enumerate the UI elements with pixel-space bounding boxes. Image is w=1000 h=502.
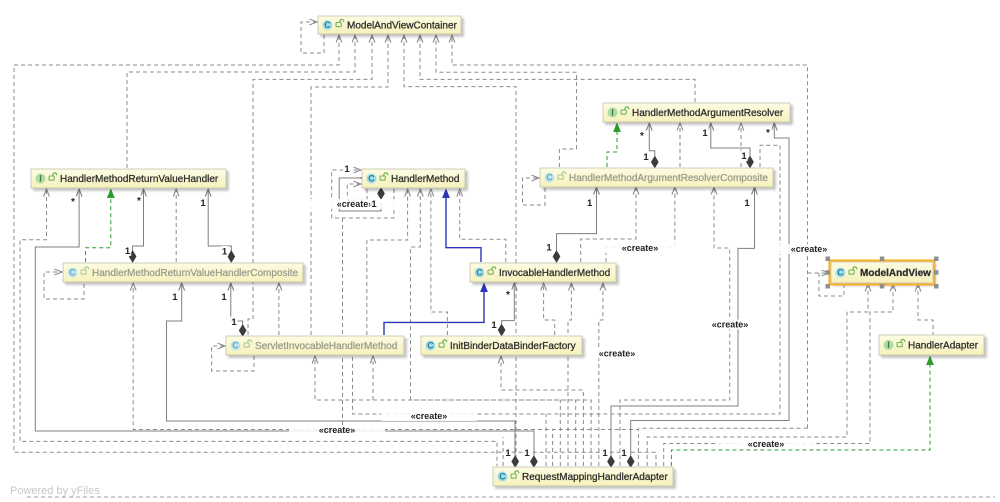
label multiplicity 1 on RMHA [523,448,531,459]
svg-text:*: * [506,290,510,301]
svg-text:«create»: «create» [337,199,374,209]
wire dependency IHM to ARC create [606,188,675,262]
svg-text:«create»: «create» [622,243,659,253]
svg-text:1: 1 [643,152,649,163]
class HandlerMethod [364,171,468,191]
svg-text:1: 1 [744,198,750,209]
interface HandlerMethodReturnValueHandler [33,171,229,191]
wire dependency ARC self-loop [523,178,546,205]
svg-text:C: C [324,20,331,30]
svg-text:C: C [368,174,375,184]
label multiplicity * [638,130,646,141]
svg-text:C: C [232,341,239,351]
wire association RMHA diamond to RVHC left [167,284,516,456]
wire dependency IHM to HandlerMethod [460,190,506,262]
svg-text:1: 1 [125,246,131,257]
wire association HandlerMethod create self-loop solid [339,178,381,211]
class ModelAndViewContainer [320,18,464,37]
wire dependency RMHA to ModelAndView a [647,285,868,466]
wire dependency RMHA to RVH dashed far left [20,190,497,466]
svg-text:*: * [766,128,770,139]
wire dependency RMHA to IHM b create [599,284,603,466]
label multiplicity * [135,195,143,206]
label multiplicity 1 InitBinder diamond [490,320,498,331]
wire association ARC diamond to AR 2 [711,124,750,156]
svg-text:HandlerMethod: HandlerMethod [391,174,459,185]
svg-text:HandlerMethodReturnValueHandle: HandlerMethodReturnValueHandler [60,174,219,185]
label multiplicity 1 [171,292,179,303]
label multiplicity * IHM-InitBinder [504,289,512,300]
svg-text:ModelAndViewContainer: ModelAndViewContainer [347,21,458,32]
svg-text:C: C [837,268,844,278]
svg-text:Powered by yFiles: Powered by yFiles [10,485,100,497]
wire dependency HandlerMethodReturnValueHandler to MAVC [127,36,355,168]
label multiplicity 1 [124,246,132,257]
wire association RVHC diamond to RVH 2 [208,190,231,251]
svg-text:HandlerAdapter: HandlerAdapter [908,341,979,352]
svg-text:1: 1 [231,317,237,328]
wire dependency ArgResolverComposite to MAVC [436,36,577,167]
svg-text:HandlerMethodReturnValueHandle: HandlerMethodReturnValueHandlerComposite [92,268,298,279]
svg-text:C: C [499,472,506,482]
svg-text:HandlerMethodArgumentResolver: HandlerMethodArgumentResolver [632,108,784,119]
svg-text:C: C [427,341,434,351]
wire dependency RMHA to ModelAndView b create row [664,285,893,466]
svg-text:«create»: «create» [599,349,636,359]
wire dependency ModelAndView self-loop [819,273,844,296]
label create mid right [682,320,778,330]
wire dependency RVHC self-loop [44,272,84,299]
wire dependency RMHA create to RVHC [133,284,638,466]
svg-text:RequestMappingHandlerAdapter: RequestMappingHandlerAdapter [522,472,668,483]
svg-text:1: 1 [524,448,530,459]
wire generalization IHM extends HandlerMethod (blue) [446,198,481,262]
svg-text:1: 1 [505,448,511,459]
label multiplicity 1 [220,292,228,303]
svg-text:1: 1 [702,128,708,139]
svg-text:1: 1 [491,320,497,331]
label multiplicity 1 [701,128,709,139]
wire dependency to SIHM bottom right arrow [372,357,374,400]
wire dependency SIHM to RVHC [278,284,280,335]
label multiplicity 1 on RMHA [601,448,609,459]
wire association RMHA diamond via ARC bottom [611,188,755,456]
svg-text:I: I [39,174,42,184]
svg-text:«create»: «create» [411,411,448,421]
label multiplicity 1 [221,246,229,257]
class InitBinderDataBinderFactory [423,338,585,358]
wire dependency RMHA to HandlerMethod [411,190,576,466]
svg-text:I: I [887,340,890,350]
wire association RMHA diamond to AR right [631,124,789,456]
wire dependency HandlerMethod self-loop big with 1 [332,170,394,218]
svg-text:1: 1 [602,448,608,459]
label multiplicity 1 [743,198,751,209]
class HandlerMethodArgumentResolverComposite [542,170,776,190]
label multiplicity * [69,196,77,207]
svg-text:C: C [476,268,483,278]
wire dependency RMHA to MAVC via right column [452,36,808,428]
svg-text:1: 1 [587,198,593,209]
wire dependency RequestMappingHandlerAdapter to MAVC long left [14,36,656,466]
wire association RMHA diamond to RVH via far left [35,190,534,456]
label multiplicity 1 [343,164,351,175]
label create near InitBinder [569,349,665,359]
label multiplicity 1 on RMHA [504,448,512,459]
svg-text:«create»: «create» [748,439,785,449]
label multiplicity 1 on RMHA [620,448,628,459]
wire dependency ServletInvocableHandlerMethod to MAVC b [311,36,388,335]
label multiplicity * [764,127,772,138]
svg-text:1: 1 [621,448,627,459]
wire dependency RMHA to IHM a [568,284,571,466]
svg-text:1: 1 [546,243,552,254]
wire dependency long bottom row under RMHA [27,496,995,498]
svg-text:1: 1 [222,247,228,258]
svg-text:C: C [69,268,76,278]
svg-text:«create»: «create» [791,244,828,254]
wire dependency RMHA create to HandlerMethod column [342,218,344,428]
wire dependency RMHA stub column a [502,437,504,466]
wire association IHM diamond to ARC [557,188,597,251]
label multiplicity 1 [642,152,650,163]
svg-text:1: 1 [741,151,747,162]
wire association IHM diamond to InitBinderDataBinderFactory [502,284,515,324]
wire association SIHM diamond to RVHC [231,284,243,325]
label multiplicity 1 [740,151,748,162]
wire dependency RMHA to SIHM a [315,357,591,466]
svg-text:1: 1 [200,198,206,209]
label create on HandlerMethod loop [307,199,403,209]
svg-text:*: * [640,131,644,142]
svg-text:C: C [546,173,553,183]
class ModelAndView (selected) [833,264,936,286]
wire realization RVHC implements RVH (green) [86,197,111,262]
wire dependency RMHA to InitBinderDataBinderFactory a [501,357,583,466]
wire dependency InitBinderDataBinderFactory to HandlerMethod [431,190,448,335]
label create row 414 [381,411,477,421]
svg-text:InitBinderDataBinderFactory: InitBinderDataBinderFactory [450,341,576,352]
wire dependency RMHA stub column d [559,400,561,466]
class ServletInvocableHandlerMethod [228,338,407,358]
svg-text:*: * [71,197,75,208]
svg-text:«create»: «create» [319,425,356,435]
wire dependency IHM to ARC b [581,188,636,262]
class RequestMappingHandlerAdapter [495,469,676,489]
wire association RVHC diamond to RVH 1 [133,190,144,251]
label create row 444 [718,439,814,449]
wire realization RMHA implements HandlerAdapter (green) [671,364,930,466]
svg-text:1: 1 [221,292,227,303]
label multiplicity 1 [586,198,594,209]
label multiplicity 1 [230,317,238,328]
label multiplicity 1 [545,242,553,253]
wire realization ARC implements AR (green) [607,131,617,167]
wire dependency RMHA via create row to ARC [620,188,730,466]
svg-text:ModelAndView: ModelAndView [860,268,931,279]
wire dependency SIHM self-loop [212,346,254,371]
label create near ARC [592,243,688,253]
class InvocableHandlerMethod [472,265,619,285]
svg-text:*: * [137,196,141,207]
svg-text:1: 1 [344,164,350,175]
wire dependency RVHC to RVH right [175,190,177,262]
wire dependency ServletInvocableHandlerMethod to MAVC a [248,36,372,335]
wire dependency RMHA stub column b [545,414,547,466]
svg-text:HandlerMethodArgumentResolverC: HandlerMethodArgumentResolverComposite [569,173,768,184]
wire dependency MAVC self-loop [301,22,324,53]
wire dependency InitBinder to IHM [544,284,555,335]
wire generalization SIHM extends IHM (blue) [384,292,484,335]
svg-text:I: I [611,108,614,118]
label multiplicity 1 [199,198,207,209]
wire association ARC diamond to AR 1 [649,124,655,156]
wire dependency ARC to AR a [679,124,681,167]
wire dependency HandlerAdapter to ModelAndView [918,285,933,336]
class HandlerMethodReturnValueHandlerComposite [65,265,306,285]
svg-text:InvocableHandlerMethod: InvocableHandlerMethod [499,268,610,279]
wire dependency ARC to AR b [740,124,742,167]
interface HandlerMethodArgumentResolver [605,105,793,125]
svg-text:1: 1 [371,199,377,210]
svg-text:«create»: «create» [712,320,749,330]
wire dependency RMHA stub column c [552,430,554,467]
wire dependency HandlerMethod self-loop small [347,184,367,200]
wire dependency RMHA create to ModelAndView branch [808,272,829,274]
interface HandlerAdapter [881,337,987,358]
wire dependency ARC via create row to SIHM [353,145,781,414]
svg-text:ServletInvocableHandlerMethod: ServletInvocableHandlerMethod [255,341,397,352]
wire dependency SIHM to HandlerMethod [367,190,408,335]
label create row 429 [289,425,385,435]
wire dependency HandlerMethodArgumentResolver to MAVC [420,36,695,102]
wire dependency RequestMappingHandlerAdapter to MAVC a [404,36,516,466]
label create right column [761,244,857,254]
svg-text:1: 1 [172,292,178,303]
